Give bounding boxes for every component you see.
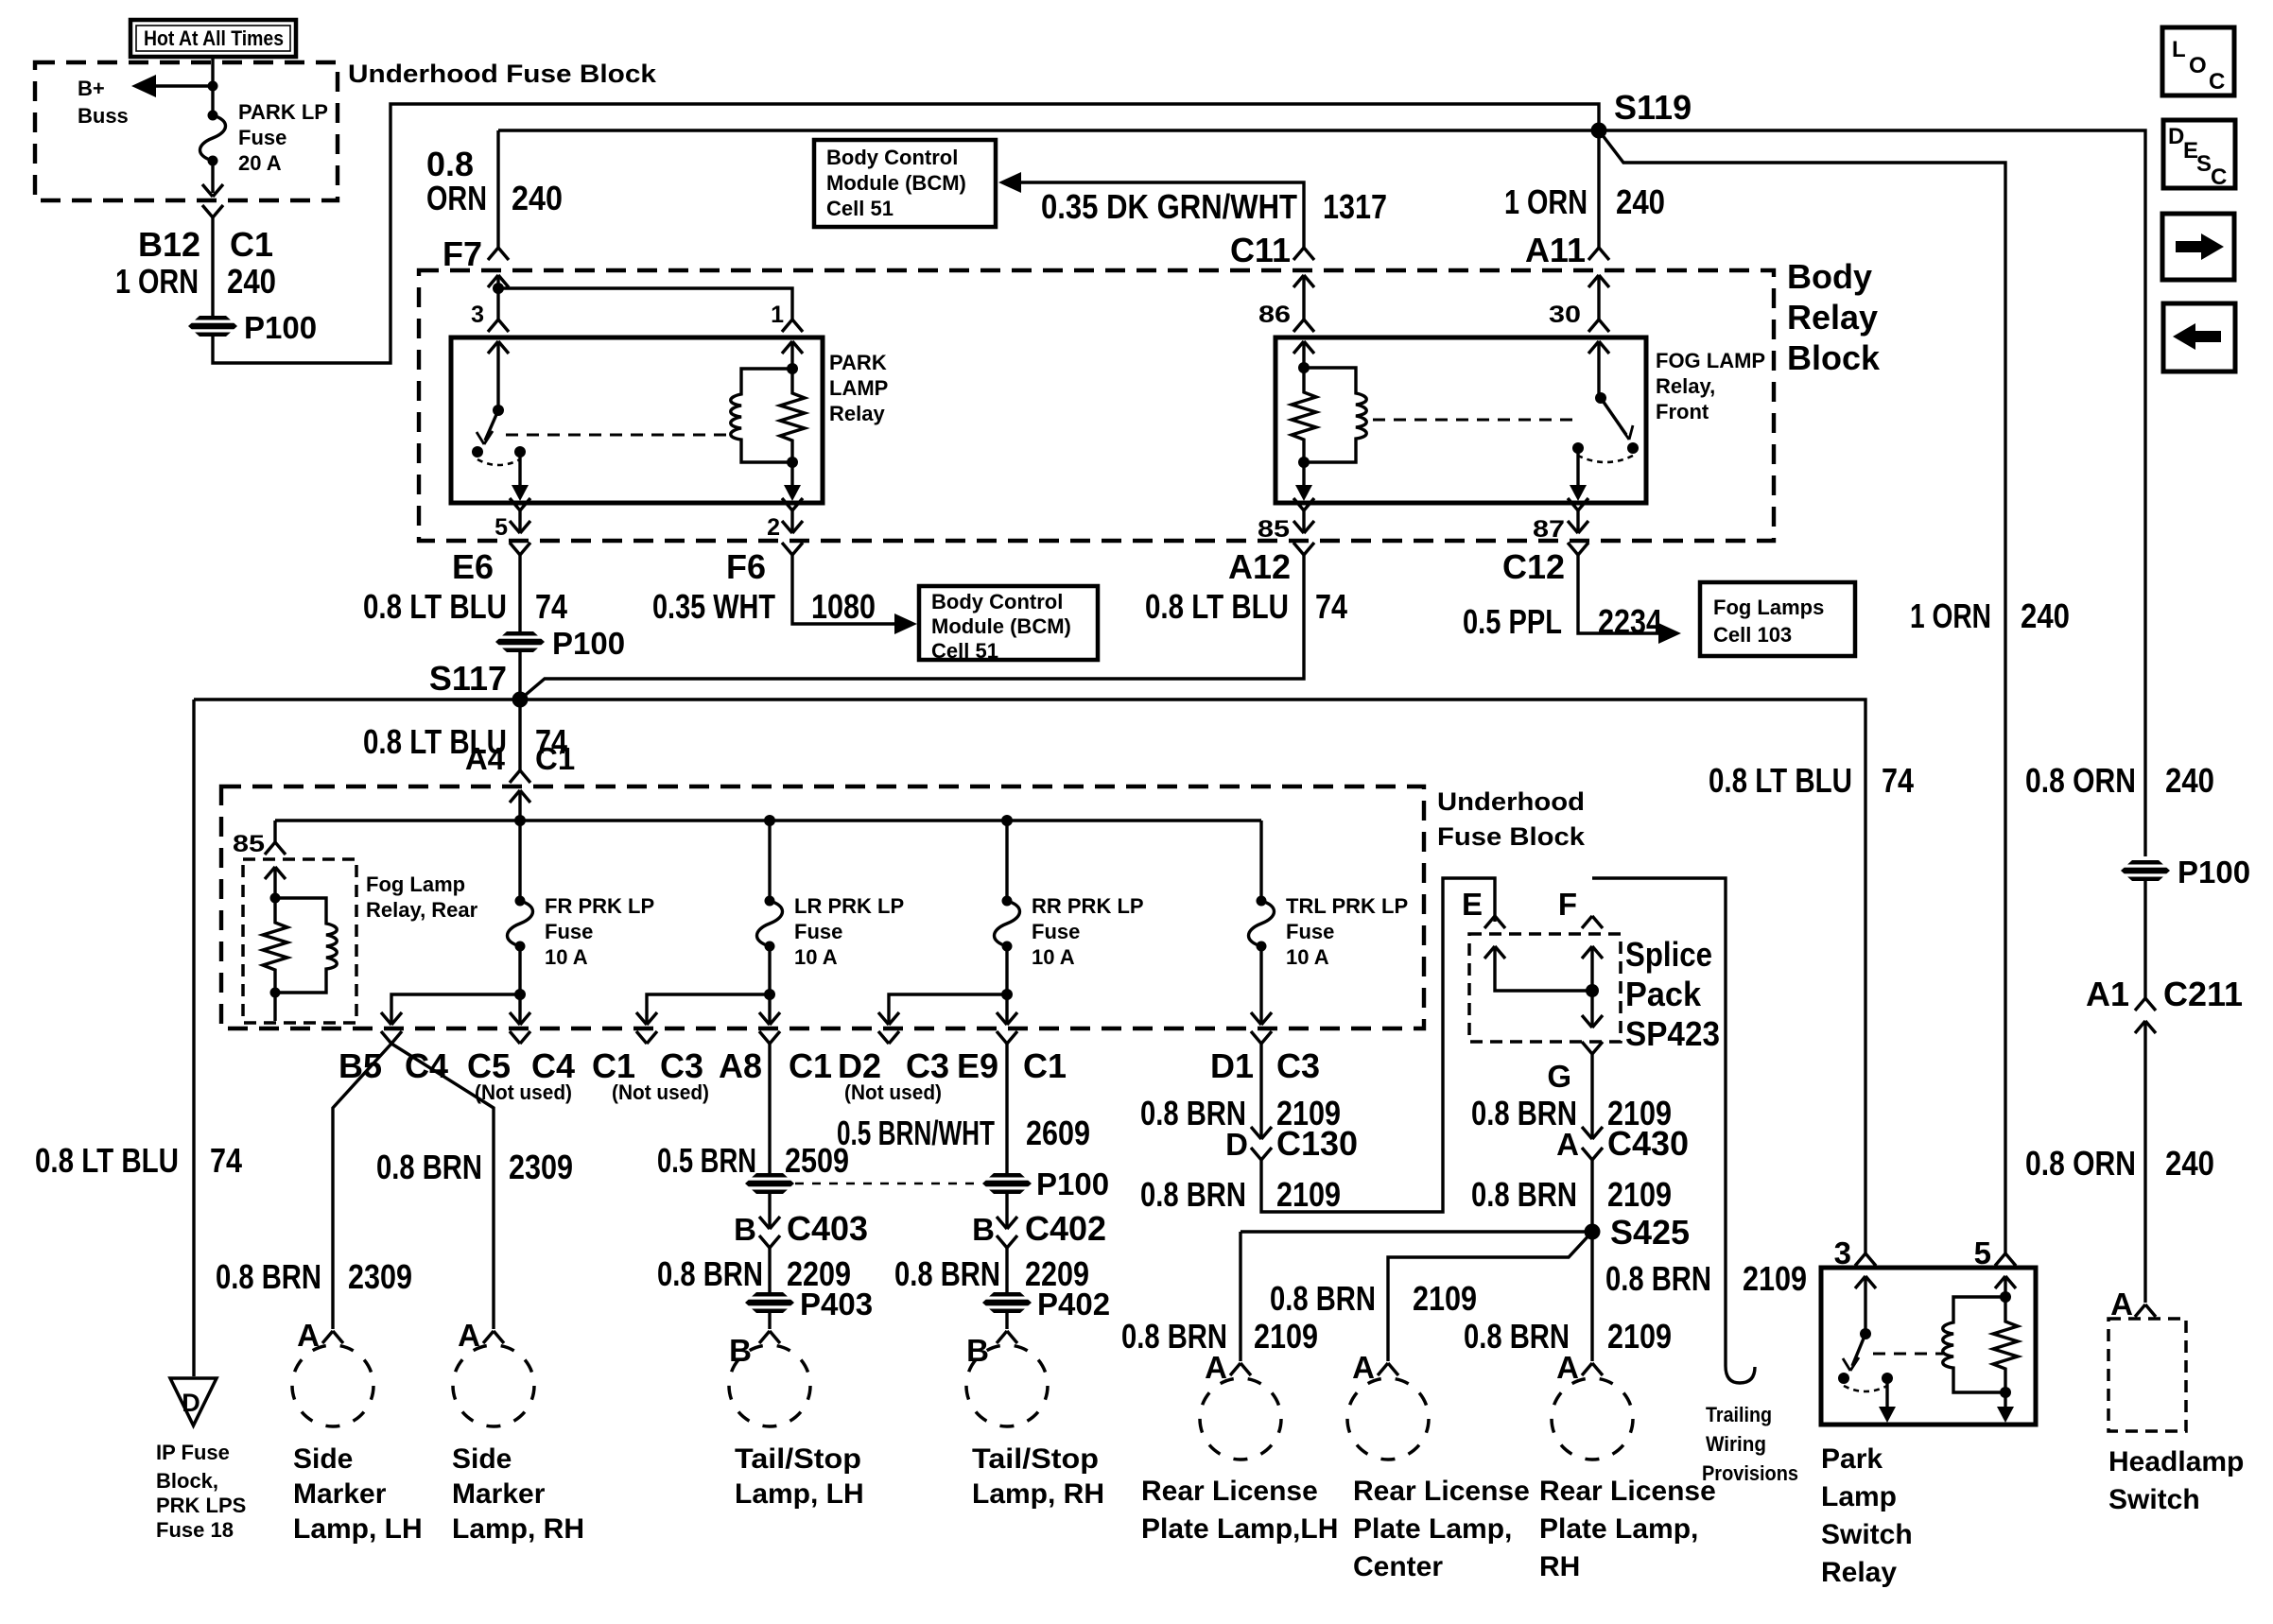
wire: S119 down to A11 [1597,130,1600,248]
svg-text:Cell 51: Cell 51 [826,197,894,220]
headlamp switch dashed box [2108,1319,2186,1431]
svg-text:2234: 2234 [1598,602,1662,641]
svg-text:C3: C3 [660,1046,703,1085]
wire S117 to A4 [518,700,521,770]
svg-text:C1: C1 [789,1046,832,1085]
svg-text:74: 74 [210,1141,242,1180]
wire P100 to C211 [2143,881,2146,998]
switch output arrow [1885,1378,1888,1407]
connector P100 tail RH [981,1173,1032,1194]
svg-text:3: 3 [1834,1235,1851,1270]
svg-text:C1: C1 [535,741,575,776]
svg-text:P100: P100 [2178,855,2250,890]
svg-text:0.8 LT BLU: 0.8 LT BLU [363,587,507,626]
fog rear resistor [263,898,287,993]
svg-text:C211: C211 [2163,975,2243,1013]
switch output to pin 5 [518,452,521,485]
svg-text:2109: 2109 [1743,1259,1807,1298]
svg-text:Relay: Relay [829,402,885,425]
wire to tail lamp LH [768,1312,771,1329]
wire: splice pack output G [1590,991,1593,1026]
svg-text:D: D [2168,124,2184,149]
svg-text:Marker: Marker [452,1478,546,1510]
connector P100 on 0.8 ORN wire [2120,860,2171,881]
coil node dots [2000,1291,2011,1303]
svg-text:F6: F6 [726,547,766,586]
svg-text:Fuse: Fuse [1286,920,1334,943]
svg-text:1080: 1080 [811,587,876,626]
relay resistor [780,369,805,462]
wire 0.8 BRN 2109 from G to C430 [1590,1054,1593,1137]
svg-text:C430: C430 [1607,1124,1689,1163]
svg-text:B: B [729,1333,752,1368]
svg-text:A: A [1352,1350,1375,1385]
svg-text:0.8 BRN: 0.8 BRN [376,1148,482,1186]
svg-text:FOG LAMP: FOG LAMP [1656,349,1765,372]
svg-text:Body Control: Body Control [931,590,1063,613]
park lamp switch relay box [1821,1268,2036,1425]
svg-text:Underhood: Underhood [1437,787,1585,816]
svg-text:A8: A8 [719,1046,762,1085]
svg-text:20 A: 20 A [238,151,282,175]
wire E6: 0.8 LT BLU 74 to P100 [518,555,521,631]
svg-text:LAMP: LAMP [829,376,888,400]
wire 0.8 BRN 2109 from C430 to S425 [1590,1160,1593,1232]
pin 2 output [790,462,793,485]
underhood fuse block 1 dashed box [35,62,338,200]
wire: B+ feed from Hot At All Times into fuse [211,57,214,115]
connector C11 [1293,248,1314,260]
svg-text:S117: S117 [429,659,507,698]
svg-text:Switch: Switch [1821,1519,1913,1550]
wire: S425 diagonal branch to rear license plate lamp center [1388,1232,1592,1361]
svg-text:Tail/Stop: Tail/Stop [735,1443,861,1475]
svg-text:Fuse: Fuse [794,920,842,943]
svg-text:D: D [1225,1127,1248,1162]
svg-text:P100: P100 [1036,1166,1109,1201]
wire 0.8 BRN 2209 to P403 [768,1248,771,1293]
svg-text:Rear License: Rear License [1141,1476,1318,1507]
svg-text:0.8: 0.8 [426,145,474,183]
wire to tail lamp RH [1005,1312,1008,1329]
svg-text:B: B [972,1212,995,1247]
svg-text:B+: B+ [78,77,105,100]
connector A11 [1588,248,1609,260]
switch pivot [493,405,504,416]
fog relay coil node dots [1298,362,1310,373]
junction dot B+ [208,81,218,92]
svg-text:0.8 LT BLU: 0.8 LT BLU [35,1141,179,1180]
svg-text:(Not used): (Not used) [612,1080,709,1104]
fog switch contacts and arc [1627,442,1639,454]
svg-text:Block: Block [1787,338,1881,377]
svg-text:Rear License: Rear License [1539,1476,1716,1507]
svg-text:10 A: 10 A [1032,945,1075,969]
svg-text:0.8 BRN: 0.8 BRN [216,1257,321,1296]
svg-text:Buss: Buss [78,104,129,128]
svg-text:D2: D2 [838,1046,881,1085]
svg-text:2109: 2109 [1607,1317,1672,1356]
svg-text:Module (BCM): Module (BCM) [826,171,966,195]
svg-text:0.35 DK GRN/WHT: 0.35 DK GRN/WHT [1041,187,1297,226]
svg-text:A1: A1 [2086,975,2129,1013]
svg-text:85: 85 [233,831,265,857]
svg-text:85: 85 [1258,516,1290,543]
svg-text:Cell 103: Cell 103 [1713,623,1792,647]
svg-text:Plate Lamp,: Plate Lamp, [1353,1513,1512,1545]
svg-text:C3: C3 [1276,1046,1320,1085]
pin 86 arrow into relay [1293,341,1314,354]
svg-text:Body Control: Body Control [826,146,958,169]
svg-text:Cell 51: Cell 51 [931,639,998,663]
wire: S117 diagonal branch to A12 [520,555,1304,700]
relay actuation dashed line [506,434,728,437]
IP fuse block terminal D triangle [170,1378,217,1425]
svg-text:P403: P403 [800,1287,873,1322]
B+ arrow [140,84,213,87]
svg-text:Fuse Block: Fuse Block [1437,822,1586,851]
svg-text:P100: P100 [552,626,625,661]
svg-text:2309: 2309 [509,1148,573,1186]
svg-text:B: B [734,1212,756,1247]
svg-text:Fog Lamp: Fog Lamp [366,872,465,896]
svg-text:0.8 LT BLU: 0.8 LT BLU [1145,587,1289,626]
wire: 1 ORN 240 to P100 [211,217,214,317]
svg-text:Side: Side [452,1443,512,1475]
svg-text:D1: D1 [1210,1046,1254,1085]
svg-text:(Not used): (Not used) [844,1080,942,1104]
svg-text:Splice: Splice [1625,935,1712,974]
rear license plate lamp center [1347,1378,1429,1460]
splice pack junction dot [1586,984,1599,997]
P100 dashed tie line [795,1183,981,1185]
svg-text:1 ORN: 1 ORN [1910,596,1991,635]
wire: S119 diagonal branch to 1 ORN 240 drop [1599,130,2005,1253]
svg-text:240: 240 [227,262,276,301]
switch contacts and dashed travel arc [472,446,483,458]
pin 1 arrow into relay [782,341,803,354]
svg-text:FR PRK LP: FR PRK LP [545,894,654,918]
svg-text:0.8 BRN: 0.8 BRN [894,1254,1000,1293]
svg-text:30: 30 [1549,302,1581,328]
svg-text:Center: Center [1353,1551,1443,1582]
relay coil (inductor) [731,369,792,462]
svg-text:B12: B12 [138,225,200,264]
svg-text:Plate Lamp,LH: Plate Lamp,LH [1141,1513,1338,1545]
svg-text:3: 3 [471,302,484,328]
wire P100 to S117 [518,652,521,700]
svg-text:Fuse: Fuse [545,920,593,943]
svg-text:0.35 WHT: 0.35 WHT [652,587,775,626]
svg-text:IP Fuse: IP Fuse [156,1441,230,1464]
svg-text:Body: Body [1787,257,1872,296]
switch arm with arrowhead [485,410,498,441]
svg-text:Trailing: Trailing [1706,1403,1772,1426]
trailing wiring hook [1726,1366,1755,1383]
svg-text:F: F [1558,887,1577,922]
BCM box 2 [919,586,1098,660]
svg-text:2109: 2109 [1607,1175,1672,1214]
svg-text:Relay: Relay [1821,1557,1897,1588]
svg-text:Hot At All Times: Hot At All Times [144,26,284,50]
svg-text:240: 240 [2165,1144,2214,1183]
svg-text:RR PRK LP: RR PRK LP [1032,894,1144,918]
svg-text:Relay: Relay [1787,298,1878,337]
svg-text:(Not used): (Not used) [475,1080,572,1104]
splice S119 [1591,123,1607,139]
svg-text:0.5 BRN/WHT: 0.5 BRN/WHT [837,1114,995,1152]
svg-text:RH: RH [1539,1551,1580,1582]
wire to C402 [1005,1193,1008,1227]
FOG LAMP relay box [1275,337,1646,503]
left arrow box [2163,303,2235,371]
wire C12: 0.5 PPL 2234 to fog lamps cell 103 [1578,555,1660,633]
svg-text:O: O [2189,53,2207,78]
wire: 0.35 DK GRN/WHT 1317 from C11 into BCM [1019,182,1304,248]
FR PRK LP fuse [518,821,521,901]
svg-text:240: 240 [512,179,563,217]
svg-text:10 A: 10 A [794,945,838,969]
PARK LAMP relay box [451,337,823,503]
svg-text:74: 74 [1315,587,1347,626]
RR fuse output split [1005,946,1008,994]
svg-text:0.8 ORN: 0.8 ORN [2025,761,2136,800]
switch pivot [1860,1328,1871,1339]
svg-text:Lamp, RH: Lamp, RH [452,1513,584,1545]
svg-text:Rear License: Rear License [1353,1476,1530,1507]
connector P100 on E6 wire [495,631,546,652]
splice S117 [512,692,529,708]
svg-text:B: B [966,1333,989,1368]
svg-text:S119: S119 [1614,88,1692,127]
svg-text:0.8 BRN: 0.8 BRN [657,1254,763,1293]
coil node dots [787,363,798,374]
LOC box [2162,27,2234,95]
FR fuse output split [518,946,521,994]
wire 0.8 BRN 2209 to P402 [1005,1248,1008,1293]
svg-text:S: S [2196,151,2212,177]
connector C1 below fuse block [202,205,223,217]
svg-text:Lamp, LH: Lamp, LH [735,1478,864,1510]
svg-text:P402: P402 [1037,1287,1110,1322]
svg-text:10 A: 10 A [1286,945,1329,969]
fuse PARK LP 20A [200,111,226,166]
svg-text:C4: C4 [531,1046,575,1085]
splice pack SP423 dashed box [1469,934,1621,1042]
svg-text:C403: C403 [787,1209,868,1248]
fog relay actuation dashed line [1373,419,1575,422]
connector P403 [744,1292,795,1313]
svg-text:87: 87 [1533,516,1565,543]
svg-text:C1: C1 [1023,1046,1067,1085]
wire: left 0.8 LT BLU 74 to IP fuse block [192,700,195,1376]
svg-text:74: 74 [535,587,567,626]
fog relay pin 85 output [1302,462,1305,485]
pin 30 arrow into relay [1588,341,1609,354]
svg-text:ORN: ORN [426,179,487,217]
coil output arrow [2004,1392,2006,1407]
svg-text:10 A: 10 A [545,945,588,969]
body relay block dashed box [419,270,1774,541]
rear license plate lamp LH [1200,1378,1281,1460]
bus junction dots [514,815,526,826]
svg-text:2: 2 [767,514,780,541]
wire: P100 down, right, up and across to S119 [213,104,1599,363]
TRL fuse output [1259,946,1262,1023]
svg-text:Fuse: Fuse [1032,920,1080,943]
fog switch output pin 87 [1576,448,1579,485]
wire: S425 down to rear license plate lamp RH [1590,1232,1593,1361]
svg-text:Lamp, LH: Lamp, LH [293,1513,423,1545]
fog rear coil [275,898,337,993]
wire to C403 [768,1193,771,1227]
svg-text:Fog Lamps: Fog Lamps [1713,596,1824,619]
svg-text:Switch: Switch [2108,1484,2200,1515]
pin 5 arrow into relay [1995,1276,2016,1288]
svg-text:240: 240 [2165,761,2214,800]
right arrow box [2162,214,2234,280]
fog lamps cell 103 box [1700,582,1855,656]
svg-text:2609: 2609 [1026,1114,1090,1152]
svg-text:PARK LP: PARK LP [238,100,328,124]
wire: junction to pin 1 [498,288,792,320]
LR PRK LP fuse [768,821,771,901]
switch contacts and arc [1838,1373,1849,1384]
side marker lamp LH [292,1345,373,1426]
svg-text:74: 74 [1882,761,1914,800]
svg-text:L: L [2172,37,2186,62]
svg-text:C: C [2211,164,2227,190]
svg-text:F7: F7 [442,234,482,273]
svg-text:5: 5 [1974,1235,1991,1270]
svg-text:C3: C3 [906,1046,949,1085]
svg-text:PARK: PARK [829,351,887,374]
svg-text:A12: A12 [1228,547,1291,586]
actuation dashed line [1873,1353,1944,1356]
svg-text:C1: C1 [592,1046,635,1085]
svg-text:2109: 2109 [1276,1175,1341,1214]
underhood fuse block 2 dashed box [221,786,1424,1028]
svg-text:LR PRK LP: LR PRK LP [794,894,904,918]
svg-text:Marker: Marker [293,1478,387,1510]
svg-text:E6: E6 [452,547,494,586]
svg-text:Lamp, RH: Lamp, RH [972,1478,1104,1510]
svg-text:Underhood Fuse Block: Underhood Fuse Block [348,60,657,88]
svg-text:C130: C130 [1276,1124,1358,1163]
svg-text:A: A [1556,1127,1579,1162]
svg-text:Fuse: Fuse [238,126,286,149]
fog relay coil [1304,368,1366,462]
svg-text:A4: A4 [465,741,506,776]
svg-text:0.8 BRN: 0.8 BRN [1140,1175,1246,1214]
svg-text:1317: 1317 [1323,187,1387,226]
wire: F terminal up and over to trailing wiring provisions [1592,878,1726,1366]
svg-text:1 ORN: 1 ORN [115,262,199,301]
splice S425 [1585,1224,1601,1240]
svg-text:A11: A11 [1525,231,1586,269]
svg-text:TRL PRK LP: TRL PRK LP [1286,894,1408,918]
DESC box [2163,120,2235,188]
svg-text:C1: C1 [230,225,273,264]
wire: fuse feed bus [275,819,1261,821]
svg-text:PRK LPS: PRK LPS [156,1494,246,1517]
connector A4/C1 [510,770,530,783]
svg-text:E: E [1462,887,1483,922]
svg-text:0.8 BRN: 0.8 BRN [1605,1259,1711,1298]
svg-text:Provisions: Provisions [1702,1461,1798,1485]
svg-text:2309: 2309 [348,1257,412,1296]
wire: tail stop lamp RH 0.5 BRN/WHT 2609 [1005,1044,1008,1174]
svg-text:Module (BCM): Module (BCM) [931,614,1071,638]
relay coil [1943,1297,2005,1392]
connector marks below fuse block 2 [381,1031,402,1044]
svg-text:Lamp: Lamp [1821,1481,1897,1512]
svg-text:P100: P100 [244,310,317,345]
svg-text:240: 240 [2021,596,2070,635]
svg-text:S425: S425 [1610,1213,1690,1252]
svg-text:Relay, Rear: Relay, Rear [366,898,478,922]
svg-text:86: 86 [1258,302,1291,328]
svg-text:C5: C5 [467,1046,511,1085]
relay resistor [1993,1297,2018,1392]
svg-text:G: G [1547,1059,1571,1094]
svg-text:Side: Side [293,1443,353,1475]
hot at all times box [130,20,296,57]
fog switch pivot [1595,392,1606,404]
svg-text:A: A [1205,1350,1227,1385]
svg-text:C402: C402 [1025,1209,1106,1248]
wire F6: 0.35 WHT 1080 into BCM cell 51 [792,555,898,624]
wire: B5 V-split to side marker lamps [333,1044,391,1329]
svg-text:Headlamp: Headlamp [2108,1446,2244,1477]
wire: pin 3 feed with junction [488,275,509,287]
fog rear output stub [273,993,276,1021]
BCM box 1 [814,140,996,227]
wire: TRL fuse output 0.8 BRN 2109 down to C130 [1259,1044,1262,1137]
svg-text:Pack: Pack [1625,975,1702,1013]
connector P100 tail LH [744,1173,795,1194]
svg-text:Fuse 18: Fuse 18 [156,1518,234,1542]
connector F7 [488,248,509,260]
wire: S117 main bus [194,700,1865,1253]
svg-text:C11: C11 [1230,231,1291,269]
svg-text:Park: Park [1821,1443,1883,1475]
side marker lamp RH [453,1345,534,1426]
svg-text:A: A [1556,1350,1579,1385]
svg-text:0.8 LT BLU: 0.8 LT BLU [1709,761,1852,800]
svg-text:D: D [182,1389,200,1417]
svg-text:0.8 BRN: 0.8 BRN [1471,1175,1577,1214]
tail stop lamp LH [729,1345,810,1426]
wire: S425 branch to rear license plate lamp LH [1241,1230,1592,1233]
svg-text:1 ORN: 1 ORN [1504,182,1588,221]
TRL PRK LP fuse [1259,821,1262,901]
svg-text:A: A [2110,1287,2133,1322]
svg-text:Plate Lamp,: Plate Lamp, [1539,1513,1698,1545]
svg-text:240: 240 [1616,182,1665,221]
pin 3 arrow into relay [488,341,509,354]
switch arm [1852,1334,1865,1366]
connector P100 [187,316,238,337]
wire: tail stop lamp LH 0.5 BRN 2509 [768,1044,771,1174]
svg-text:5: 5 [495,514,508,541]
svg-text:0.8 ORN: 0.8 ORN [2025,1144,2136,1183]
LR fuse output split [768,946,771,994]
svg-text:0.8 BRN: 0.8 BRN [1270,1279,1376,1318]
tail stop lamp RH [966,1345,1048,1426]
wire: S119 main bus to right edge and down (0.8 ORN 240 to headlamp switch) [498,130,2145,856]
svg-text:SP423: SP423 [1625,1014,1720,1053]
